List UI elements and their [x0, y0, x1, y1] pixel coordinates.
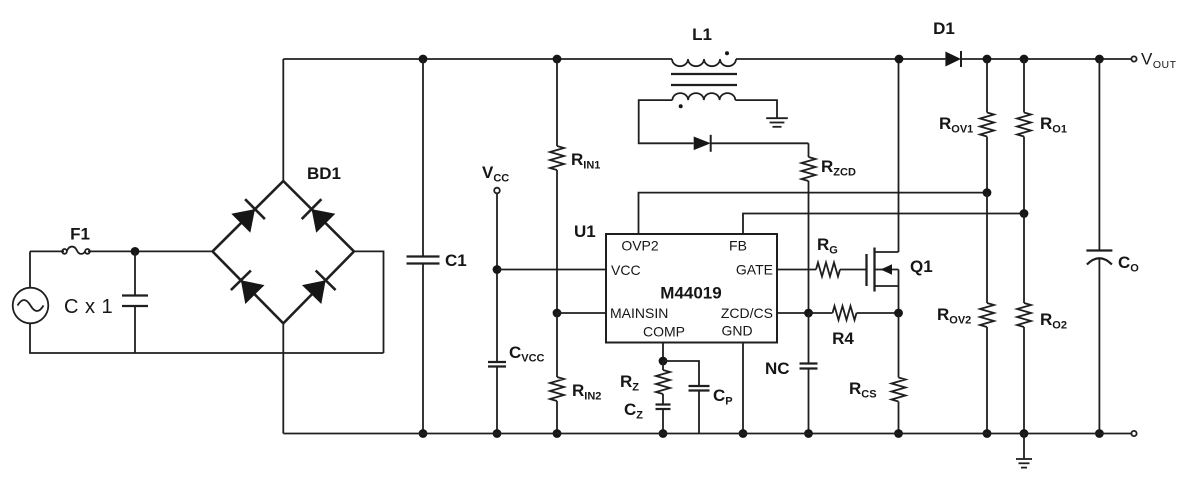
wire L1 secondary left leg	[639, 100, 694, 143]
svg-text:F1: F1	[70, 225, 90, 244]
node bottom rail ROV2	[983, 429, 992, 438]
label RIN1	[571, 150, 600, 172]
node bottom rail CZ	[659, 429, 668, 438]
fuse F1	[62, 247, 90, 254]
pin label GND	[721, 323, 752, 339]
AC source V1	[13, 288, 49, 324]
node VCC pin junction	[493, 265, 502, 274]
svg-text:NC: NC	[765, 359, 790, 378]
svg-text:GND: GND	[721, 323, 752, 339]
resistor R4	[809, 306, 899, 320]
ground secondary	[766, 118, 788, 127]
svg-text:Q1: Q1	[910, 257, 933, 276]
svg-text:M44019: M44019	[660, 284, 721, 303]
wire OVP2 to ROV divider	[639, 193, 988, 234]
resistor ROV2	[980, 193, 994, 434]
transistor Q1	[867, 248, 899, 292]
bridge rectifier BD1 outline	[213, 181, 355, 323]
bridge diode bottom-right	[302, 271, 336, 305]
wire ZCD/CS pin	[777, 312, 809, 314]
capacitor Co	[1086, 59, 1112, 434]
pin label FB	[729, 238, 747, 254]
capacitor NC	[800, 313, 818, 434]
node RZCD ZCD junction	[804, 309, 813, 318]
resistor RCS	[892, 313, 906, 434]
svg-text:COMP: COMP	[643, 324, 685, 340]
wire VCC vertical	[496, 193, 498, 361]
wire Q1 source	[898, 270, 900, 314]
node MAINSIN junction	[553, 309, 562, 318]
node bottom rail C1	[419, 429, 428, 438]
pin label MAINSIN	[610, 305, 668, 321]
terminal bottom right	[1131, 431, 1136, 436]
svg-text:GATE: GATE	[736, 262, 773, 278]
bridge diode top-right	[302, 199, 336, 233]
label Co	[1118, 253, 1139, 275]
label M44019	[660, 284, 721, 303]
diode D1	[945, 51, 961, 67]
label RO1	[1040, 114, 1067, 136]
label RIN2	[572, 381, 601, 403]
node bottom rail NC	[804, 429, 813, 438]
svg-text:ZCD/CS: ZCD/CS	[721, 305, 773, 321]
label BD1	[307, 164, 341, 183]
label ROV1	[939, 114, 973, 136]
node bottom rail RO2	[1020, 429, 1029, 438]
resistor RIN2	[550, 313, 564, 434]
svg-text:CO: CO	[1118, 253, 1139, 275]
terminal VOUT	[1131, 56, 1136, 61]
wire MAINSIN pin	[557, 312, 606, 314]
label Q1	[910, 257, 933, 276]
node Q1 source R4 junction	[894, 309, 903, 318]
wire top rail right	[961, 58, 1131, 60]
svg-text:CZ: CZ	[624, 400, 643, 422]
node bottom rail GND	[739, 429, 748, 438]
label VCC node	[482, 163, 509, 185]
node ROV divider junction	[983, 188, 992, 197]
svg-text:CP: CP	[713, 386, 733, 408]
label CZ	[624, 400, 643, 422]
wire AC source bottom lead	[30, 323, 384, 353]
node top rail ROV1	[983, 55, 992, 64]
wire bridge AC right return	[354, 251, 384, 353]
label D1	[933, 19, 955, 38]
wire L1 secondary right leg	[735, 100, 777, 117]
label RO2	[1040, 310, 1067, 332]
wire GATE pin	[777, 269, 816, 271]
label RZ	[620, 372, 639, 394]
wire top rail mid	[736, 58, 945, 60]
svg-text:D1: D1	[933, 19, 955, 38]
svg-text:RZCD: RZCD	[821, 157, 856, 179]
node bottom rail RCS	[894, 429, 903, 438]
label CVCC	[509, 343, 545, 365]
node top rail C1	[419, 55, 428, 64]
wire COMP pin	[662, 343, 664, 362]
bridge diode bottom-left	[231, 271, 265, 305]
label RZCD	[821, 157, 856, 179]
svg-text:RCS: RCS	[849, 379, 877, 401]
resistor RG	[816, 263, 867, 277]
node COMP junction	[659, 357, 668, 366]
resistor RO1	[1017, 59, 1031, 214]
svg-text:OVP2: OVP2	[621, 238, 659, 254]
svg-text:VCC: VCC	[611, 262, 641, 278]
node top rail RIN1	[553, 55, 562, 64]
label U1	[574, 222, 596, 241]
label ROV2	[937, 305, 971, 327]
wire diode to RZCD	[711, 142, 809, 144]
wire FB to RO divider	[743, 214, 1024, 235]
wire AC source top lead	[29, 251, 31, 287]
label C x 1	[64, 296, 113, 318]
node top rail Co	[1095, 55, 1104, 64]
svg-text:VCC: VCC	[482, 163, 509, 185]
resistor ROV1	[980, 59, 994, 193]
node bottom rail CVCC	[493, 429, 502, 438]
resistor RZ	[656, 361, 670, 394]
diode D2 zcd	[694, 135, 711, 152]
label L1	[692, 25, 712, 44]
pin label ZCD/CS	[721, 305, 773, 321]
svg-text:C1: C1	[445, 251, 467, 270]
label RCS	[849, 379, 877, 401]
svg-text:RO1: RO1	[1040, 114, 1067, 136]
label R4	[832, 329, 854, 348]
svg-text:RIN1: RIN1	[571, 150, 600, 172]
label RG	[817, 235, 838, 257]
svg-text:MAINSIN: MAINSIN	[610, 305, 668, 321]
L1 primary phase dot	[725, 51, 729, 55]
wire bridge DC- to bottom rail	[282, 323, 284, 433]
svg-text:RO2: RO2	[1040, 310, 1067, 332]
wire GND pin	[742, 343, 744, 434]
terminal VCC	[494, 188, 500, 194]
L1 secondary phase dot	[679, 104, 683, 108]
node AC live junction	[131, 247, 140, 256]
svg-text:U1: U1	[574, 222, 596, 241]
svg-text:ROV2: ROV2	[937, 305, 971, 327]
label VOUT	[1141, 50, 1177, 72]
svg-text:RIN2: RIN2	[572, 381, 601, 403]
inductor L1 primary winding	[672, 59, 736, 66]
capacitor C1	[407, 59, 440, 434]
capacitor CVCC	[488, 362, 506, 434]
label C1	[445, 251, 467, 270]
capacitor CP	[663, 361, 710, 434]
node top rail Q1 drain	[895, 55, 904, 64]
wire VCC pin	[497, 269, 606, 271]
svg-text:RG: RG	[817, 235, 838, 257]
bridge diode top-left	[231, 199, 265, 233]
ground output	[1016, 434, 1032, 468]
node RO divider junction	[1020, 209, 1029, 218]
svg-text:FB: FB	[729, 238, 747, 254]
resistor RZCD	[802, 143, 816, 313]
svg-text:VOUT: VOUT	[1141, 50, 1177, 72]
resistor RIN1	[550, 59, 564, 313]
label CP	[713, 386, 733, 408]
op-amp U1 M44019 body	[606, 234, 777, 343]
svg-text:BD1: BD1	[307, 164, 341, 183]
wire top rail left	[283, 58, 672, 60]
pin label COMP	[643, 324, 685, 340]
svg-text:CVCC: CVCC	[509, 343, 545, 365]
svg-text:C x 1: C x 1	[64, 296, 113, 318]
node top rail RO1	[1020, 55, 1029, 64]
L1 secondary winding	[672, 93, 735, 100]
wire AC live top	[30, 250, 213, 252]
capacitor C x 1	[122, 251, 148, 353]
label NC	[765, 359, 790, 378]
svg-text:L1: L1	[692, 25, 712, 44]
pin label OVP2	[621, 238, 659, 254]
resistor RO2	[1017, 214, 1031, 434]
capacitor CZ	[656, 394, 671, 434]
wire bottom rail	[283, 433, 1131, 435]
wire bridge DC+ to top rail	[282, 59, 284, 181]
svg-text:RZ: RZ	[620, 372, 639, 394]
label F1	[70, 225, 90, 244]
pin label VCC	[611, 262, 641, 278]
wire Q1 drain	[898, 59, 900, 252]
pin label GATE	[736, 262, 773, 278]
node bottom rail Co	[1095, 429, 1104, 438]
L1 core	[671, 74, 737, 85]
svg-text:R4: R4	[832, 329, 854, 348]
node bottom rail RIN2	[553, 429, 562, 438]
svg-text:ROV1: ROV1	[939, 114, 973, 136]
